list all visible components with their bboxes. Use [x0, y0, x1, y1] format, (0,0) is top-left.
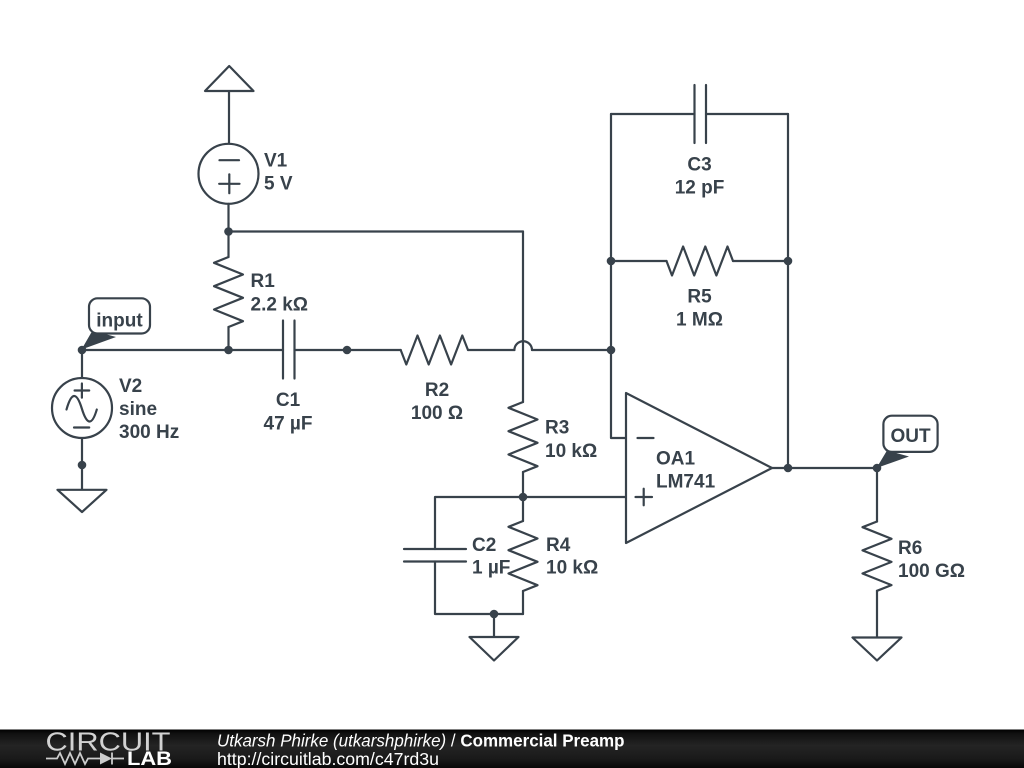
ground (R6) [853, 638, 902, 661]
svg-text:1 MΩ: 1 MΩ [676, 310, 723, 331]
node feedback left top [607, 257, 616, 266]
resistor R1 [214, 232, 243, 351]
svg-text:LM741: LM741 [656, 472, 716, 493]
resistor R3 [509, 402, 538, 497]
voltage source V1 [199, 144, 259, 204]
wire C2 branch [435, 497, 523, 614]
svg-text:10 kΩ: 10 kΩ [546, 558, 598, 579]
svg-text:LAB: LAB [127, 749, 172, 768]
node main/minus junction [607, 346, 616, 355]
svg-text:OA1: OA1 [656, 449, 696, 470]
node bottom ground junction [490, 610, 499, 619]
wire C1 to R2 [295, 349, 401, 351]
resistor R5 [611, 247, 788, 276]
svg-text:V2: V2 [119, 376, 142, 397]
CircuitLab logo resistor-diode glyph [46, 753, 124, 765]
svg-text:input: input [96, 311, 143, 332]
resistor R6 [863, 468, 892, 638]
wire feedback left branch [611, 114, 695, 350]
svg-text:C2: C2 [472, 535, 496, 556]
svg-text:http://circuitlab.com/c47rd3u: http://circuitlab.com/c47rd3u [217, 749, 439, 768]
ground (C2/R4) [470, 614, 519, 661]
label R4 10 kΩ [546, 535, 598, 579]
node R1 bottom [224, 346, 233, 355]
wire hop to feedback node [532, 349, 611, 351]
svg-text:R2: R2 [425, 380, 449, 401]
node output [784, 464, 793, 473]
svg-text:sine: sine [119, 399, 157, 420]
input flag balloon [82, 298, 151, 349]
resistor R2 [401, 336, 515, 365]
label C3 12 pF [675, 155, 725, 199]
svg-text:R5: R5 [687, 287, 712, 308]
svg-text:100 GΩ: 100 GΩ [898, 561, 965, 582]
node OUT [873, 464, 882, 473]
svg-text:OUT: OUT [890, 426, 931, 447]
node C1 right [343, 346, 352, 355]
svg-text:100 Ω: 100 Ω [411, 403, 463, 424]
svg-text:47 µF: 47 µF [264, 414, 313, 435]
svg-text:10 kΩ: 10 kΩ [545, 441, 597, 462]
node input [78, 346, 87, 355]
label OA1 LM741 [656, 449, 716, 493]
label R2 100 Ω [411, 380, 463, 424]
voltage source V2 [52, 350, 112, 465]
label C1 47 µF [264, 390, 313, 435]
OUT flag balloon [877, 416, 938, 468]
svg-text:1 µF: 1 µF [472, 558, 510, 579]
label R6 100 GΩ [898, 538, 965, 582]
resistor R4 [509, 497, 538, 614]
capacitor C3 [695, 85, 707, 143]
svg-text:2.2 kΩ: 2.2 kΩ [251, 295, 309, 316]
svg-text:R6: R6 [898, 538, 922, 559]
svg-text:C3: C3 [687, 155, 711, 176]
wire junction to op-amp plus input [523, 496, 626, 498]
svg-text:R3: R3 [545, 418, 569, 439]
node R3/R4/C2/plus junction [519, 493, 528, 502]
svg-text:V1: V1 [264, 151, 288, 172]
capacitor C1 [283, 321, 295, 379]
svg-text:12 pF: 12 pF [675, 178, 725, 199]
wire input to C1 [82, 349, 283, 351]
wire op-amp output [772, 467, 877, 469]
capacitor C2 [404, 549, 466, 562]
op-amp OA1 LM741 [626, 393, 772, 543]
ground (V2) [58, 465, 107, 512]
footer bar [0, 730, 1024, 768]
wire top rail to R3 branch [229, 232, 524, 403]
svg-text:Utkarsh Phirke (utkarshphirke): Utkarsh Phirke (utkarshphirke) / Commerc… [217, 731, 625, 751]
svg-text:C1: C1 [276, 390, 301, 411]
wire hop over R3 branch [514, 341, 532, 350]
power supply V+ symbol [205, 66, 254, 144]
wire to op-amp minus input [611, 350, 626, 438]
svg-text:R4: R4 [546, 535, 571, 556]
svg-text:300 Hz: 300 Hz [119, 422, 179, 443]
node V2 bottom [78, 461, 87, 470]
label V1 5 V [264, 151, 293, 195]
label R1 2.2 kΩ [251, 271, 309, 316]
label V2 sine 300 Hz [119, 376, 179, 443]
label R3 10 kΩ [545, 418, 597, 463]
wire feedback right branch [706, 114, 788, 468]
svg-text:5 V: 5 V [264, 174, 293, 195]
label C2 1 µF [472, 535, 510, 579]
node feedback right top [784, 257, 793, 266]
label R5 1 MΩ [676, 287, 723, 331]
node A (V1/R1 junction) [224, 227, 233, 236]
svg-text:R1: R1 [251, 271, 276, 292]
wire V1 to node [227, 204, 229, 232]
